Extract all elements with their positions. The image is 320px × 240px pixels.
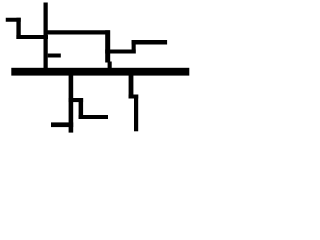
wire lower step vertical bbox=[79, 98, 84, 119]
wire top-left horizontal bbox=[6, 18, 21, 22]
wire bottom-left stub bbox=[51, 122, 73, 127]
wire top-left vertical drop bbox=[16, 18, 20, 39]
wire lower-right jog horizontal bbox=[129, 95, 139, 99]
wire short stub off main vertical bbox=[48, 54, 61, 58]
wire horizontal into main vertical bbox=[16, 35, 48, 39]
wire right-middle vertical bbox=[105, 30, 110, 62]
wire horizontal to right step bbox=[105, 50, 136, 54]
wire long horizontal upper-middle bbox=[44, 30, 110, 34]
wire right-middle vertical lower jog to bus bbox=[108, 62, 112, 69]
wire main top vertical bbox=[44, 3, 48, 69]
wire right upper horizontal bbox=[132, 40, 168, 45]
wire right step vertical bbox=[132, 40, 136, 54]
bus bar thick horizontal bbox=[11, 68, 189, 76]
wire lower horizontal run bbox=[79, 115, 108, 119]
wire lower jog horizontal bbox=[69, 98, 84, 102]
wire lower-right vertical from bus bbox=[129, 76, 134, 99]
wire lower-left long vertical bbox=[69, 76, 74, 133]
wire lower-right long vertical bbox=[134, 95, 138, 132]
